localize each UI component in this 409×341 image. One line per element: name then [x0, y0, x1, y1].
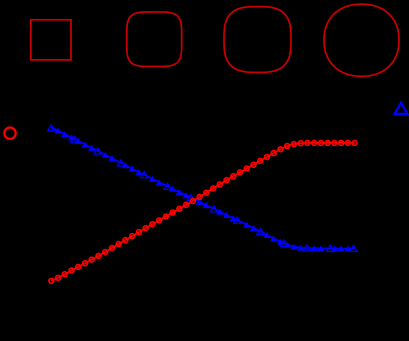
shape 3: rounder superellipse — [224, 7, 291, 73]
left axis label: red open circle "O" — [4, 128, 15, 139]
blue open triangle sparse series — [48, 125, 357, 252]
shape 2: rounded superellipse — [127, 12, 182, 66]
right axis label: blue open triangle — [395, 103, 408, 114]
blue data line — [51, 128, 354, 249]
shape 4: near-circle superellipse — [324, 4, 399, 76]
shape 1: square superellipse — [31, 20, 71, 60]
red data line — [51, 143, 354, 281]
blue triangle markers — [54, 128, 351, 252]
red circle markers — [49, 141, 357, 284]
